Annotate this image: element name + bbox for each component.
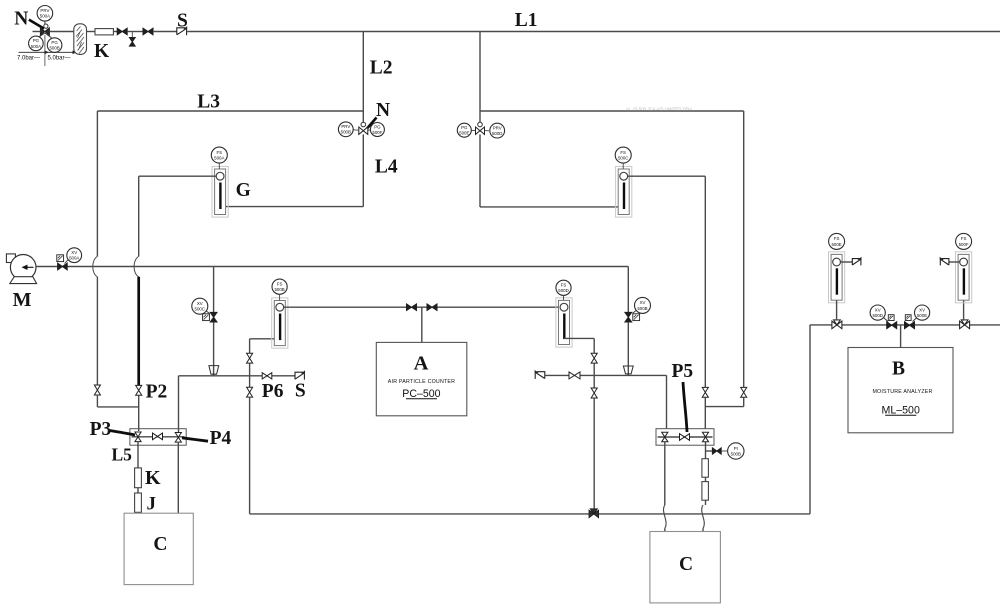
arrow 5.0bar <box>48 51 73 53</box>
svg-text:L5: L5 <box>112 445 133 465</box>
valve on x=249.6 upper <box>247 353 253 363</box>
instrument XV 500A <box>67 248 82 263</box>
svg-text:500D: 500D <box>492 131 503 136</box>
arrow 7.0bar <box>19 51 45 53</box>
valve on x=249.6 lower <box>247 387 253 397</box>
instrument XV 500D <box>870 305 885 320</box>
wire drop x=705.3 <box>704 176 706 387</box>
wire x=743.7 below valve <box>743 397 745 406</box>
instrument XV 500C <box>192 298 208 314</box>
wire regulator down-stub <box>44 35 46 66</box>
svg-text:500C: 500C <box>195 307 206 312</box>
check valve (FS500E outlet) <box>852 259 861 266</box>
instrument PRV 500C <box>490 123 505 138</box>
flex hose left (right station) <box>664 505 667 529</box>
svg-text:500B: 500B <box>637 306 647 311</box>
pressure regulator N body <box>44 24 48 28</box>
wire riser x=810 <box>809 325 811 514</box>
valve on x=594.2 lower <box>591 388 597 398</box>
valve on right vent line <box>569 372 580 379</box>
svg-text:G: G <box>236 180 251 201</box>
svg-text:500A: 500A <box>214 156 224 161</box>
stem FS 500A <box>218 163 220 169</box>
pump M base <box>10 277 37 284</box>
wire B feed drop <box>900 325 902 348</box>
wire x=249.6 middle <box>249 363 251 387</box>
wire FS500C outlet to right <box>628 175 706 177</box>
stem FS 500B <box>279 295 281 301</box>
svg-text:500E: 500E <box>831 242 841 247</box>
valve on sample header <box>589 509 598 518</box>
instrument PI 500B <box>728 443 744 459</box>
svg-text:K: K <box>145 467 161 489</box>
svg-text:AL JS 500 JCA A/S UMITED ORA: AL JS 500 JCA A/S UMITED ORA <box>626 107 692 112</box>
svg-text:FS: FS <box>834 236 840 241</box>
wire FS500F check stub <box>949 261 960 263</box>
manifold valve left (P3) <box>135 432 141 442</box>
vent funnel (left) <box>209 366 219 375</box>
svg-text:PRV: PRV <box>40 8 49 13</box>
wire G inlet from left <box>139 175 216 177</box>
filter K (sample) <box>135 468 142 488</box>
wire between right filters <box>705 477 707 481</box>
svg-text:FS: FS <box>277 282 283 287</box>
instrument FS 500A <box>211 147 227 163</box>
svg-text:P6: P6 <box>262 381 284 402</box>
valve XV 500B <box>633 314 640 321</box>
moisture trap vessel <box>74 24 87 55</box>
pump M body <box>10 254 36 280</box>
wire inlet stub <box>33 31 41 33</box>
valve XV 500C <box>203 314 210 321</box>
svg-text:N: N <box>14 8 28 29</box>
wire drop x=594.2 upper <box>593 338 595 353</box>
flow meter G body <box>212 166 228 217</box>
wire main line corner drop <box>627 267 629 313</box>
wire between K and J <box>137 488 139 493</box>
valve A-line right <box>427 304 437 311</box>
valve XV 500D <box>888 315 894 321</box>
manifold box (left) <box>130 429 186 446</box>
wire x=705.3 below valve <box>704 397 706 429</box>
instrument PG 500D <box>457 123 471 137</box>
svg-text:500A: 500A <box>40 14 50 19</box>
svg-text:XV: XV <box>640 300 646 305</box>
svg-text:XV: XV <box>71 250 77 255</box>
wire right vent line <box>545 374 667 376</box>
svg-text:7.0bar—: 7.0bar— <box>17 56 40 62</box>
svg-text:A: A <box>414 353 429 375</box>
instrument PRV 500A <box>37 6 53 22</box>
svg-text:J: J <box>147 494 157 515</box>
wire XV500B to funnel <box>627 322 629 375</box>
svg-text:PC–500: PC–500 <box>402 388 440 400</box>
svg-text:S: S <box>177 10 188 31</box>
manifold valve center P5 <box>680 434 690 441</box>
wire join 705-744 <box>705 406 743 408</box>
pointer from N to regulator PRV <box>29 20 44 29</box>
svg-text:500E: 500E <box>459 131 469 136</box>
valve P6 <box>262 373 272 379</box>
wire L4 to rotameter G <box>220 206 364 208</box>
wire L4 drop <box>362 134 364 206</box>
svg-text:ML–500: ML–500 <box>882 404 920 416</box>
svg-text:B: B <box>892 359 905 380</box>
wire right regulator drop <box>479 134 481 207</box>
instrument PG 500A <box>29 36 44 51</box>
wire right upper header <box>480 110 744 112</box>
wire between inlet valves <box>127 31 143 33</box>
regulator body (left station) <box>361 122 366 127</box>
wire drop to analyzer A <box>421 307 423 342</box>
svg-text:M: M <box>13 289 32 311</box>
wire XV500C to funnel <box>213 322 215 376</box>
ball valve left (B station) <box>832 320 842 329</box>
chamber C (left) box <box>124 513 193 584</box>
valve P2 <box>136 385 142 395</box>
wire FS500E check stub <box>841 261 853 263</box>
svg-text:MOISTURE ANALYZER: MOISTURE ANALYZER <box>872 389 932 395</box>
instrument PRV 500B <box>338 122 353 137</box>
svg-text:L4: L4 <box>375 156 398 177</box>
svg-text:PI: PI <box>734 446 738 451</box>
svg-text:N: N <box>376 100 390 121</box>
svg-text:P3: P3 <box>90 419 112 440</box>
valve A-line left <box>407 304 417 311</box>
svg-text:500B: 500B <box>49 46 59 51</box>
gauge branch lines <box>38 33 51 38</box>
stub to PI 500B <box>706 450 713 452</box>
wire FS500B outlet header <box>284 306 560 308</box>
analyzer A box <box>376 342 467 415</box>
wire left vent line <box>179 375 296 377</box>
flow meter FS 500D body <box>556 298 572 347</box>
regulator body (right station) <box>478 122 483 127</box>
stem FS 500C <box>622 163 624 169</box>
svg-text:500B: 500B <box>274 287 284 292</box>
wire L1 main header <box>187 31 1000 33</box>
instrument XV 500B <box>635 297 651 313</box>
flow meter FS 500F body <box>956 252 972 303</box>
wire manifold right valve down <box>177 442 179 513</box>
wire manifold right valve down <box>705 442 707 459</box>
svg-text:PG: PG <box>374 124 381 129</box>
flow meter FS 500B body <box>272 298 288 348</box>
wire x=97.4 lower <box>96 277 98 385</box>
instrument FS 500B <box>272 279 287 294</box>
instrument XV 500E <box>915 305 930 320</box>
wire G drop x=138.7 upper <box>138 176 140 256</box>
instrument FS 500F <box>956 233 972 249</box>
pointer from N to left regulator <box>365 118 376 131</box>
wire join to x=138.7 <box>97 406 138 408</box>
drain valve <box>129 38 135 47</box>
svg-text:L2: L2 <box>370 57 393 78</box>
pump M arrow <box>26 266 34 268</box>
wire right drop to rotameter FS500C <box>480 206 623 208</box>
manifold box (right) <box>656 429 714 446</box>
flow meter FS 500C body <box>616 166 632 217</box>
stem PRV 500A to regulator <box>44 21 46 24</box>
wire main suction header <box>36 266 628 268</box>
vent check flag (right station) <box>535 372 545 379</box>
junction branch x=213.6 <box>213 267 215 313</box>
svg-text:500A: 500A <box>31 44 41 49</box>
stub to PRV 500C <box>485 130 489 132</box>
valve on x=97.4 <box>94 385 100 395</box>
wire trap to filter K <box>87 31 96 33</box>
svg-text:AIR PARTICLE COUNTER: AIR PARTICLE COUNTER <box>388 379 455 385</box>
stub to PG 500D <box>471 129 476 131</box>
svg-text:500B: 500B <box>731 451 741 456</box>
svg-text:K: K <box>94 41 110 62</box>
chamber C (right) box <box>650 532 721 603</box>
svg-text:PRV: PRV <box>341 124 350 129</box>
svg-text:500A: 500A <box>69 256 79 261</box>
valve (inlet block 2) <box>143 28 153 35</box>
svg-text:L1: L1 <box>515 10 538 31</box>
svg-text:500E: 500E <box>917 313 927 318</box>
svg-text:500F: 500F <box>959 242 969 247</box>
svg-text:XV: XV <box>197 301 203 306</box>
wire L2 drop <box>362 32 364 127</box>
valve XV 500E <box>905 315 911 321</box>
wire FS500E to ball valve <box>836 300 838 321</box>
manifold internal line <box>658 436 713 438</box>
filter J (sample) <box>135 493 142 512</box>
svg-text:P4: P4 <box>210 428 232 449</box>
filter (right upper) <box>702 459 709 478</box>
valve at PI 500B <box>712 448 721 454</box>
valve (inlet block 1) <box>117 28 127 35</box>
filter (right lower) <box>702 482 709 501</box>
wire FS500D outlet <box>564 337 594 339</box>
svg-text:PG: PG <box>51 40 58 45</box>
svg-text:FS: FS <box>561 283 567 288</box>
check valve (FS500F inlet) <box>940 259 949 266</box>
svg-text:XV: XV <box>875 307 881 312</box>
wire x=249.6 to sample header <box>249 397 251 514</box>
wire x=138.7 to manifold <box>138 395 140 431</box>
wire vent corner drop x=666.5 <box>666 375 668 429</box>
svg-text:PG: PG <box>33 38 40 43</box>
filter K body <box>95 29 113 35</box>
wire x=97.4 to join <box>96 395 98 407</box>
vent check S (left station) <box>295 372 304 379</box>
instrument PG 500C <box>370 123 384 137</box>
svg-text:C: C <box>153 534 167 555</box>
svg-text:5.0bar—: 5.0bar— <box>48 56 71 62</box>
wire x=594.2 middle <box>593 363 595 388</box>
pointer from P4 to valve <box>182 438 208 441</box>
wire valve to vent S <box>153 31 177 33</box>
svg-text:P2: P2 <box>146 382 168 403</box>
svg-text:FS: FS <box>620 150 626 155</box>
wire filter to flex <box>705 500 707 505</box>
crossing hop x=138.7 <box>134 256 139 276</box>
crossing hop x=97.4 <box>93 256 98 276</box>
pump M inlet box <box>6 254 15 263</box>
svg-text:FS: FS <box>961 236 967 241</box>
stub to PG 500C <box>368 129 371 131</box>
instrument FS 500E <box>829 233 845 249</box>
analyzer B box <box>848 348 953 433</box>
wire filter K to valve <box>113 31 117 33</box>
wire sample return header <box>250 513 810 515</box>
wire B station header <box>810 324 1000 326</box>
wire L3 header <box>97 110 363 112</box>
stub to PRV 500B <box>353 129 359 131</box>
flex hose right (right station) <box>702 505 705 529</box>
wire x=138.7 bold segment <box>137 277 140 385</box>
vent check S symbol <box>177 28 187 35</box>
valve on x=594.2 upper <box>591 353 597 363</box>
manifold internal line (left) <box>132 436 185 438</box>
stem FS 500D <box>563 296 565 301</box>
pointer from P3 to valve <box>110 431 135 436</box>
svg-text:PG: PG <box>461 125 468 130</box>
wire drop x=743.7 <box>743 111 745 387</box>
instrument FS 500C <box>615 147 631 163</box>
wire FS500F to ball valve <box>963 300 965 321</box>
manifold valve left <box>662 432 668 442</box>
svg-text:XV: XV <box>919 307 925 312</box>
vent funnel (right) <box>623 366 633 374</box>
valve on x=705.3 <box>702 387 708 397</box>
wire manifold to filter K <box>137 442 139 468</box>
wire rotameter feed corner <box>250 338 280 340</box>
manifold valve right (P4) <box>175 433 181 443</box>
wire right header drop <box>479 32 481 127</box>
svg-text:500C: 500C <box>618 156 629 161</box>
manifold valve center (left) <box>153 433 163 440</box>
valve on x=743.7 <box>741 387 747 397</box>
svg-text:FS: FS <box>216 150 222 155</box>
ball valve right (B station) <box>960 320 970 329</box>
pointer from P5 to manifold valve <box>683 382 687 432</box>
instrument PG 500B <box>47 38 62 53</box>
svg-text:500D: 500D <box>558 288 569 293</box>
svg-text:P5: P5 <box>672 361 694 382</box>
svg-text:PRV: PRV <box>493 125 502 130</box>
wire x=594.2 to sample header <box>593 398 595 514</box>
svg-text:L3: L3 <box>197 92 220 113</box>
svg-text:500B: 500B <box>341 130 351 135</box>
svg-text:C: C <box>679 554 693 575</box>
wire manifold left valve down <box>664 442 666 505</box>
svg-text:S: S <box>295 380 306 401</box>
valve XV 500A <box>57 255 64 262</box>
instrument FS 500D <box>556 280 571 295</box>
svg-text:500D: 500D <box>872 313 883 318</box>
drain stub <box>131 32 133 38</box>
svg-text:500F: 500F <box>372 130 382 135</box>
manifold valve right <box>702 432 708 442</box>
wire L3 drop x=97.4 upper <box>96 111 98 256</box>
wire regulator to moisture trap <box>49 31 73 33</box>
flow meter FS 500E body <box>829 252 845 303</box>
wire vent line corner drop x=178.5 <box>178 376 180 432</box>
